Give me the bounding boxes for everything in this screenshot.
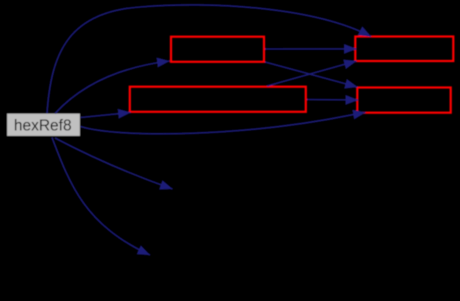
- svg-text:hexRef8: hexRef8: [14, 118, 72, 135]
